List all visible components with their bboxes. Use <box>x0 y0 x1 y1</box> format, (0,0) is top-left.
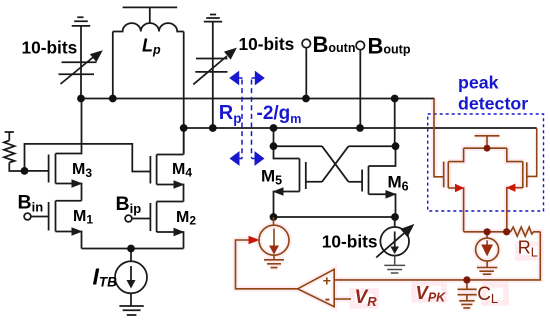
transistor M2 (input right) with Bip terminal <box>157 201 184 203</box>
transistor Q2 (peak detector right) gate bar <box>526 162 528 187</box>
junction node VPK / capacitor CL <box>463 276 470 283</box>
arrow head Rp bottom (points left) <box>230 151 240 166</box>
wire Q2 source down to PD source rail <box>507 188 523 232</box>
ground below current source I2 <box>264 255 284 267</box>
current source I1 (peak detector bias) <box>486 232 488 238</box>
ground (above varactor C1) <box>72 17 91 26</box>
transistor M3 (cascode left) <box>56 99 82 154</box>
M3 source arrow <box>72 179 83 188</box>
arrow head -2/gm bottom (points right) <box>255 151 265 166</box>
junction node outn / C1 / M3 drain <box>77 95 85 103</box>
junction node outp / C2 <box>209 124 217 132</box>
transistor Q1 channel bar <box>447 162 449 188</box>
capacitor C1 (10-bit varactor) plates <box>59 62 97 74</box>
varactor C2 arrow head <box>224 44 240 60</box>
wire bias node to M3 and M4 gates <box>25 144 151 172</box>
wire PD source rail (VPK sense node) <box>464 231 511 233</box>
variable current source (10-bit tail DAC) <box>394 217 396 227</box>
arrow shafts Rp and -2/gm <box>238 78 257 159</box>
junction M5 drain / cross-coupling <box>270 142 278 150</box>
terminal Boutp circle and lead <box>356 41 364 49</box>
junction node outp / inductor right leg / M4 drain <box>180 124 188 132</box>
wire node outn rail <box>81 98 435 100</box>
junction PD source rail / resistor RL <box>503 228 510 235</box>
ground (above varactor C2) <box>204 15 222 22</box>
wire RL to node VPK and op-amp plus input <box>334 232 540 280</box>
transistor Q1 source arrow <box>455 184 464 192</box>
varactor C2 arrow shaft <box>193 56 227 84</box>
wire Q2 drain to supply bus <box>507 148 523 161</box>
arrow inside current source I2 <box>269 246 279 255</box>
junction PD drain bus / supply tap <box>484 145 491 152</box>
current source ITB circle and arrow shaft <box>115 261 147 293</box>
junction bias resistor / M3-M4 gates <box>21 167 29 175</box>
wire inductor left leg <box>112 32 114 99</box>
capacitor C2 (10-bit varactor) plates <box>195 59 227 72</box>
junction PD source rail / current source I1 <box>484 228 491 235</box>
wire cross-coupling X (M5 gate to M6 drain, M6 gate to M5 drain) <box>322 146 349 182</box>
svg-text:peak: peak <box>458 73 499 93</box>
arrow head Rp top (points left) <box>229 71 239 86</box>
arrow inside current source I1 <box>481 245 493 257</box>
wire Q1 source down to PD source rail <box>448 188 463 232</box>
svg-text:-: - <box>325 291 330 308</box>
svg-text:10-bits: 10-bits <box>322 232 378 252</box>
supply T bar (inductor center tap) <box>123 7 178 23</box>
junction node outn / M6 drain lead <box>391 95 399 103</box>
transistor Q2 source arrow <box>506 184 515 192</box>
svg-text:detector: detector <box>458 94 528 114</box>
junction node outp / Boutp lead <box>356 124 364 132</box>
junction node outn / inductor left leg <box>109 95 117 103</box>
M1 source arrow <box>72 227 83 236</box>
svg-text:10-bits: 10-bits <box>239 34 295 54</box>
supply T bar of peak detector <box>475 136 500 148</box>
svg-text:+: + <box>323 273 331 289</box>
varactor C1 arrow head <box>90 46 106 62</box>
transistor Q2 channel bar <box>522 162 524 188</box>
wire node outp rail <box>184 127 537 129</box>
variable current source diagonal arrow head <box>400 224 414 237</box>
junction M1-M2 sources / ITB <box>127 245 135 253</box>
terminal Boutn circle and lead <box>302 39 310 47</box>
transistor Q1 (peak detector left) gate bar <box>443 162 445 188</box>
inductor Lp coil <box>113 23 184 31</box>
op-amp U1 triangle <box>298 269 335 306</box>
junction node outn / Boutn lead <box>302 95 310 103</box>
junction node outp / M5 drain lead <box>270 124 278 132</box>
M6 source arrow <box>386 190 397 199</box>
wire node outn to Q1 gate <box>434 99 444 177</box>
resistor RL zigzag <box>511 227 541 236</box>
wire PD drain bus <box>464 147 507 149</box>
wire Q1 drain to supply bus <box>448 148 463 161</box>
transistor M6 (cross-coupled right) <box>394 99 396 147</box>
ground below ITB <box>119 293 143 315</box>
wire inductor right leg down to M4 <box>183 32 185 155</box>
junction M6 drain / cross-coupling <box>392 142 400 150</box>
ground below capacitor CL <box>459 301 474 308</box>
wire node outp to Q2 gate <box>527 128 537 176</box>
wire op-amp inverting input to VR <box>334 298 351 300</box>
capacitor CL <box>458 280 477 300</box>
junction M6 source / variable CS <box>391 213 399 221</box>
ground below current source I1 <box>477 261 497 274</box>
wire ground to varactor C1 and node outn <box>80 26 82 99</box>
arrow head control into current source I2 <box>249 236 260 245</box>
varactor C1 arrow shaft <box>61 57 95 85</box>
M4 source arrow <box>174 180 185 189</box>
svg-text:10-bits: 10-bits <box>22 38 78 58</box>
arrow head -2/gm top (points right) <box>255 71 265 86</box>
arrow inside variable current source <box>390 247 399 255</box>
M2 source arrow <box>174 228 185 237</box>
wire M1-M2 common source rail to ITB <box>82 248 184 250</box>
peak detector dashed boundary box <box>428 114 544 211</box>
wire ground to varactor C2 and node outp <box>212 22 214 128</box>
transistor M5 (cross-coupled left) <box>273 128 275 146</box>
junction M5 source / controlled CS <box>270 213 278 221</box>
wire M5-M6 common source rail <box>274 216 396 218</box>
transistor M4 (cascode right) <box>183 128 185 155</box>
resistor R1 (gate bias) with supply T <box>5 132 14 141</box>
wire op-amp output feedback to controlled current source <box>236 240 298 289</box>
dashed cut lines for Rp / -2/gm impedance view <box>241 80 243 159</box>
current source I2 (op-amp controlled tail source) <box>273 217 275 225</box>
arrow inside current source ITB <box>127 280 136 289</box>
transistor M1 (input left) with Bin terminal <box>56 200 82 202</box>
M5 source arrow <box>273 187 284 196</box>
